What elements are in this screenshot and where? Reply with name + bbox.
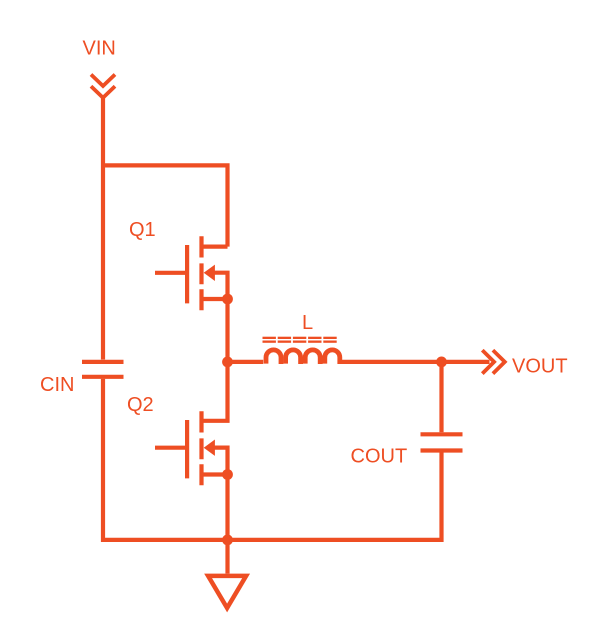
- junction dot Q2 source/body: [222, 469, 233, 480]
- transistor Q1: [155, 236, 228, 362]
- junction dot VOUT/COUT: [436, 357, 447, 368]
- wire switch node to inductor: [228, 360, 264, 364]
- svg-text:Q1: Q1: [129, 219, 156, 241]
- junction dot ground node: [222, 535, 233, 546]
- ground: [208, 576, 246, 608]
- inductor L windings: [266, 350, 340, 364]
- svg-text:CIN: CIN: [40, 374, 74, 396]
- wire inductor to VOUT: [340, 360, 490, 364]
- inductor L core dashes: [263, 337, 337, 343]
- capacitor COUT: [421, 434, 463, 450]
- svg-text:L: L: [302, 312, 313, 334]
- wire CIN to bottom rail to COUT: [103, 379, 442, 540]
- wire top branch to Q1 drain: [101, 165, 228, 246]
- svg-text:VIN: VIN: [83, 38, 116, 60]
- svg-text:VOUT: VOUT: [512, 355, 568, 377]
- VIN input port chevron: [91, 75, 115, 98]
- junction dot Q1 source/body: [222, 294, 233, 305]
- transistor Q2: [155, 362, 228, 540]
- svg-text:Q2: Q2: [127, 394, 154, 416]
- wire VIN vertical to CIN top plate: [101, 97, 105, 360]
- capacitor CIN: [82, 362, 124, 377]
- junction dot switch node: [222, 357, 233, 368]
- wire ground stem: [225, 540, 229, 574]
- svg-text:COUT: COUT: [351, 446, 408, 468]
- VOUT output port chevron: [482, 350, 505, 373]
- wire COUT branch: [439, 362, 443, 432]
